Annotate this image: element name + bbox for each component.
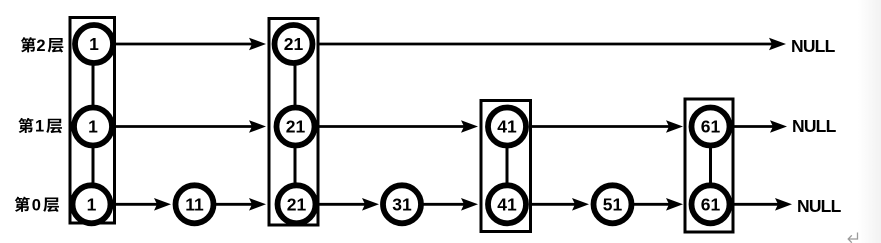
node 61 level 0 xyxy=(692,185,730,223)
node 21 level 2 xyxy=(275,25,313,63)
svg-text:31: 31 xyxy=(392,194,412,214)
wire L1: 41 to 61 xyxy=(531,120,683,133)
svg-text:1: 1 xyxy=(35,118,44,136)
wire L0: 21 to 31 xyxy=(318,198,379,211)
svg-text:0: 0 xyxy=(32,196,41,214)
wire L0: 1 to 11 xyxy=(110,198,171,211)
node 11 level 0 xyxy=(176,185,214,223)
box column 61 xyxy=(685,99,733,232)
node 41 level 0 xyxy=(488,185,526,223)
wire L0: 41 to 51 xyxy=(531,198,589,211)
wire L1: 21 to 41 xyxy=(318,120,478,133)
wire L0: 11 to 21 xyxy=(214,198,266,211)
svg-text:1: 1 xyxy=(87,194,97,214)
wire column 1 vertical xyxy=(92,44,95,204)
page right edge shading xyxy=(858,0,881,243)
box column 21 xyxy=(269,19,318,226)
box column 1 xyxy=(70,18,115,224)
wire L0: 51 to 61 xyxy=(633,198,683,211)
wire L1: 1 to 21 xyxy=(112,120,266,133)
label 第2层 xyxy=(21,37,64,55)
node 21 level 0 xyxy=(278,185,316,223)
svg-text:21: 21 xyxy=(287,194,307,214)
wire column 41 vertical xyxy=(506,127,509,205)
svg-text:51: 51 xyxy=(603,194,623,214)
svg-text:61: 61 xyxy=(701,117,721,137)
node 51 level 0 xyxy=(594,185,632,223)
svg-text:NULL: NULL xyxy=(797,196,842,216)
svg-text:41: 41 xyxy=(497,194,517,214)
wire L0: 61 to NULL xyxy=(734,198,792,211)
node 41 level 1 xyxy=(488,108,526,146)
wire L0: 31 to 41 xyxy=(422,198,478,211)
svg-text:21: 21 xyxy=(286,117,306,137)
svg-text:NULL: NULL xyxy=(792,116,837,136)
svg-text:1: 1 xyxy=(88,117,98,137)
wire column 61 vertical xyxy=(709,127,712,205)
svg-text:21: 21 xyxy=(284,34,304,54)
box column 41 xyxy=(481,101,531,232)
svg-text:NULL: NULL xyxy=(791,36,836,56)
svg-text:61: 61 xyxy=(701,194,721,214)
wire L2: 1 to 21 xyxy=(112,38,266,51)
svg-text:11: 11 xyxy=(185,194,204,214)
return mark xyxy=(848,233,857,243)
node 1 level 1 xyxy=(74,108,112,146)
wire L1: 61 to NULL xyxy=(734,120,787,133)
wire L2: 21 to NULL xyxy=(317,38,786,51)
svg-text:41: 41 xyxy=(497,117,517,137)
label 第1层 xyxy=(18,118,62,136)
node 21 level 1 xyxy=(277,108,315,146)
label 第0层 xyxy=(15,196,59,214)
wire column 21 vertical xyxy=(294,44,297,204)
svg-text:1: 1 xyxy=(89,34,99,54)
node 31 level 0 xyxy=(383,185,421,223)
node 61 level 1 xyxy=(692,108,730,146)
node 1 level 0 xyxy=(73,185,111,223)
svg-text:2: 2 xyxy=(36,37,45,55)
node 1 level 2 xyxy=(75,25,113,63)
